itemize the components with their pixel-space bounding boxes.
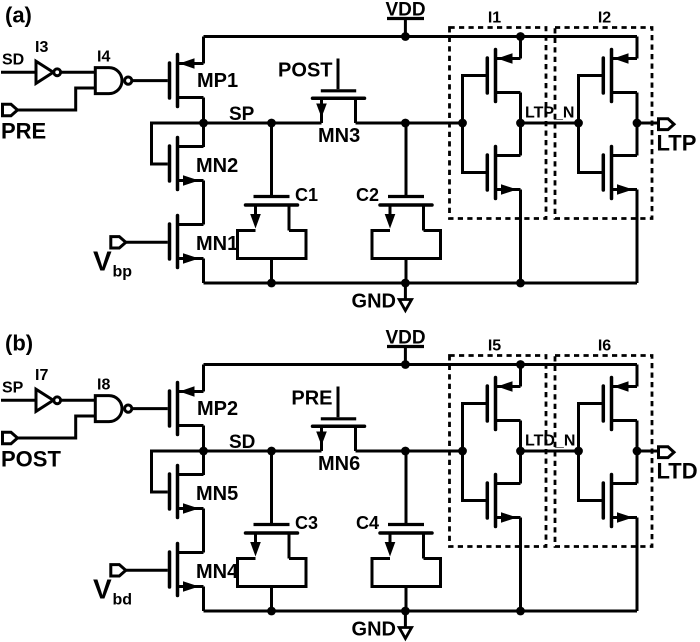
svg-text:VDD: VDD <box>385 0 425 21</box>
svg-text:C1: C1 <box>295 185 318 205</box>
svg-text:VDD: VDD <box>385 328 425 349</box>
svg-text:I1: I1 <box>488 10 501 27</box>
svg-text:GND: GND <box>352 619 396 641</box>
svg-text:C4: C4 <box>356 513 379 533</box>
svg-text:MN1: MN1 <box>196 233 238 255</box>
svg-text:PRE: PRE <box>1 119 46 144</box>
svg-text:C2: C2 <box>356 185 379 205</box>
svg-text:bd: bd <box>113 592 133 609</box>
svg-text:PRE: PRE <box>291 388 332 410</box>
svg-text:MN5: MN5 <box>196 483 238 505</box>
svg-text:C3: C3 <box>295 513 318 533</box>
svg-text:SD: SD <box>229 432 255 453</box>
svg-text:MN2: MN2 <box>196 155 238 177</box>
svg-text:POST: POST <box>278 60 332 82</box>
svg-text:I2: I2 <box>598 10 611 27</box>
svg-text:LTP_N: LTP_N <box>525 105 574 122</box>
svg-text:SP: SP <box>229 104 255 125</box>
svg-text:I8: I8 <box>97 377 110 394</box>
svg-text:bp: bp <box>113 264 133 281</box>
svg-text:GND: GND <box>352 291 396 313</box>
svg-text:I5: I5 <box>488 338 501 355</box>
svg-text:I6: I6 <box>598 338 611 355</box>
svg-text:V: V <box>93 246 112 277</box>
svg-text:SP: SP <box>2 380 24 397</box>
svg-text:I4: I4 <box>97 49 110 66</box>
svg-text:POST: POST <box>1 447 61 472</box>
svg-text:MN4: MN4 <box>196 561 239 583</box>
svg-text:SD: SD <box>2 52 24 69</box>
svg-text:(b): (b) <box>5 331 33 356</box>
svg-text:(a): (a) <box>5 3 32 28</box>
svg-text:MP2: MP2 <box>197 398 238 420</box>
svg-text:MN3: MN3 <box>318 125 360 147</box>
svg-text:LTP: LTP <box>657 131 697 156</box>
svg-text:LTD: LTD <box>657 459 698 484</box>
svg-text:MN6: MN6 <box>318 453 360 475</box>
svg-text:I3: I3 <box>35 39 48 56</box>
svg-text:I7: I7 <box>35 367 48 384</box>
svg-text:V: V <box>93 574 112 605</box>
svg-text:MP1: MP1 <box>197 70 238 92</box>
svg-text:LTD_N: LTD_N <box>525 433 575 450</box>
